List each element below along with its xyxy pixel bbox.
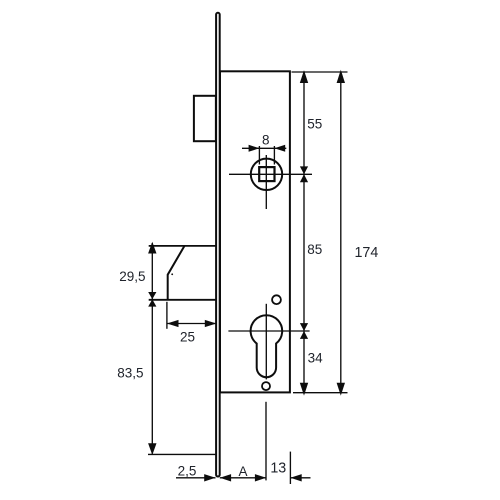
svg-text:13: 13: [270, 460, 286, 476]
svg-text:174: 174: [354, 245, 378, 261]
svg-text:25: 25: [180, 329, 195, 344]
svg-text:85: 85: [307, 242, 322, 257]
svg-text:A: A: [238, 464, 247, 479]
svg-text:34: 34: [308, 351, 324, 366]
svg-text:55: 55: [307, 117, 322, 132]
svg-text:83,5: 83,5: [117, 366, 143, 381]
svg-text:29,5: 29,5: [119, 269, 145, 284]
svg-text:2,5: 2,5: [178, 464, 197, 479]
svg-text:8: 8: [262, 132, 270, 147]
